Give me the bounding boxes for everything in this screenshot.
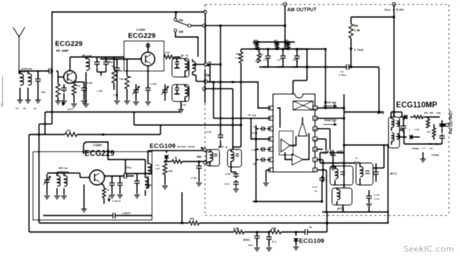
- capacitor C4 0.02 at pin3: [260, 128, 262, 130]
- detector diode D1: [404, 114, 407, 119]
- wire ground return under IC: [253, 201, 324, 203]
- osc cap inside: [175, 87, 180, 89]
- detector filter cap C: [403, 124, 405, 126]
- svg-text:ECG229: ECG229: [55, 39, 83, 48]
- wire detector node: [423, 116, 440, 118]
- capacitor C10: [235, 180, 237, 182]
- wire y=112 ground bus: [45, 111, 180, 113]
- trimmer capacitor across antenna coil: [37, 75, 39, 79]
- wire box2 drop: [181, 192, 183, 223]
- wire 300 rail right: [77, 134, 161, 136]
- resistor R6 vertical: [426, 119, 430, 128]
- switch arm contact: [188, 24, 191, 27]
- svg-text:1k: 1k: [107, 188, 111, 192]
- wire IFT3 top to detector: [391, 111, 402, 113]
- wire Q1 collector up: [69, 57, 71, 71]
- ground padding cap: [114, 100, 120, 102]
- variable capacitor AM tuning: [46, 177, 48, 180]
- wire pin12 right: [317, 128, 330, 130]
- wire IFT4 secondary top: [233, 146, 241, 148]
- wire base into Q2: [100, 58, 141, 60]
- wire pin2 to FM net: [214, 117, 252, 119]
- terminal L circle: [203, 161, 206, 164]
- ground 0.1 cap: [266, 247, 272, 249]
- capacitor 0.1: [268, 231, 271, 234]
- AM contact: [174, 29, 177, 32]
- IFT4 secondary coil: [231, 152, 234, 162]
- base capacitor cluster: [63, 86, 65, 88]
- wire supply rail y223 right: [199, 222, 389, 224]
- detector diode D2: [410, 134, 413, 139]
- ground 10k: [124, 100, 130, 102]
- wire pin11 right: [317, 138, 326, 140]
- svg-text:300: 300: [190, 217, 195, 221]
- svg-text:0.04: 0.04: [181, 103, 187, 107]
- svg-text:30p: 30p: [108, 60, 113, 64]
- arrow 1mA: [62, 100, 64, 106]
- wire arm to terminal: [191, 25, 203, 27]
- svg-text:RF coil: RF coil: [82, 54, 92, 58]
- svg-text:0.5mA: 0.5mA: [112, 199, 122, 203]
- RF coil: [86, 59, 89, 71]
- FM contact: [174, 18, 177, 21]
- capacitor C2 0.02: [282, 52, 284, 56]
- resistor Rb 1.5k: [350, 17, 352, 24]
- svg-text:10k: 10k: [271, 227, 277, 231]
- wire cluster top: [125, 173, 152, 175]
- wire secondary to M: [193, 63, 204, 65]
- capacitor C5 at pin6: [260, 159, 262, 161]
- IC pin 5 left: [269, 147, 273, 151]
- svg-text:0.005: 0.005: [86, 81, 93, 85]
- ground RF coil: [83, 103, 89, 105]
- resistor 10k vertical: [163, 164, 167, 175]
- svg-text:2k: 2k: [174, 156, 178, 160]
- svg-text:ECG229: ECG229: [85, 149, 116, 158]
- capacitor cluster 1: [111, 180, 113, 183]
- IC amp triangle 3: [292, 154, 303, 165]
- tuning capacitor RF 1: [96, 59, 98, 62]
- wire antenna to Q3 base: [64, 172, 80, 174]
- M terminal circle: [204, 63, 207, 66]
- wire jog up to AGC wire: [160, 125, 162, 135]
- wire AM output down: [284, 6, 286, 49]
- resistor 10k AGC: [270, 230, 281, 234]
- feedback capacitor: [147, 43, 149, 45]
- ground trimmer: [35, 99, 41, 101]
- left cluster: padding cap: [116, 65, 118, 68]
- wire FM net drop: [213, 82, 215, 118]
- middle can: [356, 163, 373, 185]
- svg-text:AM OUTPUT: AM OUTPUT: [287, 8, 317, 14]
- resistor R7: [432, 128, 436, 137]
- ground antenna coil secondary: [25, 99, 31, 101]
- wire pin13 right: [317, 117, 344, 119]
- svg-text:IFT2: IFT2: [390, 172, 397, 176]
- IFT4 primary cap: [214, 153, 218, 155]
- wire caps loop bottom: [293, 80, 307, 82]
- ground bias resistor: [55, 100, 61, 102]
- dashed enclosure left: [204, 5, 206, 216]
- wire AGC rail y232: [29, 231, 234, 233]
- svg-text:0.1: 0.1: [272, 240, 277, 244]
- wire pin8 drop: [317, 169, 327, 171]
- resistor 1.7k collector load: [112, 70, 116, 83]
- wire drop to IC top: [292, 81, 294, 95]
- emitter bypass capacitor 0.005: [83, 85, 85, 88]
- svg-text:6mA typ: 6mA typ: [324, 101, 337, 105]
- IFT5 lower coil: [337, 190, 340, 200]
- wire pin7 down: [266, 169, 271, 171]
- IC pin 1 left: [269, 106, 273, 110]
- electrolytic cap AGC: [256, 231, 259, 234]
- ground pin caps bus: [256, 125, 259, 202]
- wire bar antenna top: [47, 172, 64, 174]
- svg-text:ECG109: ECG109: [150, 143, 176, 150]
- wire detector out: [440, 124, 446, 126]
- terminal circle box1 top right: [204, 10, 207, 13]
- wire bottom of caps: [259, 66, 307, 68]
- capacitor 0.02 at pin5: [260, 148, 262, 150]
- svg-text:Rb: Rb: [354, 24, 358, 28]
- FM output terminal: [445, 123, 448, 126]
- antenna coil L1 primary: [20, 74, 23, 86]
- wire collector rail: [70, 56, 124, 58]
- wire L to IFT4: [207, 161, 210, 163]
- IFT1 secondary coil: [193, 62, 196, 72]
- svg-text:AM: AM: [197, 155, 202, 159]
- svg-text:30p: 30p: [41, 90, 46, 94]
- IFT5 coil a: [335, 169, 338, 179]
- svg-text:C8: C8: [429, 147, 433, 151]
- wire caps rail to Ca: [307, 66, 346, 68]
- wire M to AM branch: [208, 63, 221, 65]
- IFT3 transformer can: [389, 117, 400, 148]
- svg-text:1mA: 1mA: [67, 107, 74, 111]
- oscillator coil can: [172, 85, 189, 102]
- capacitor cluster 2: [119, 180, 121, 183]
- feedback corner wire: [84, 142, 146, 174]
- vertical collector line right of IC: [343, 94, 345, 188]
- IFT5 cap a: [340, 171, 345, 173]
- wire ECG109 rail: [148, 150, 203, 152]
- emitter capacitor 0.035: [147, 85, 149, 88]
- bias resistor at RF base: [57, 77, 59, 84]
- svg-text:0.7mA: 0.7mA: [354, 48, 364, 52]
- capacitor C12 0.01: [368, 193, 370, 196]
- ground C10: [233, 188, 239, 190]
- svg-text:1000p: 1000p: [431, 153, 440, 157]
- svg-text:2V typ: 2V typ: [248, 113, 257, 117]
- IFT1 capacitor inside: [175, 61, 180, 63]
- IFT1 transformer can: [172, 59, 189, 78]
- wire vertical branch from AM line: [220, 26, 222, 133]
- terminal circle mid boundary: [202, 87, 205, 90]
- wire IFT3 bottom tap: [399, 129, 404, 131]
- svg-text:C3: C3: [292, 58, 296, 62]
- IC pin 12 right: [313, 127, 317, 131]
- svg-text:FM OUTPUT: FM OUTPUT: [449, 110, 454, 134]
- AM bar antenna coil 2: [64, 176, 67, 187]
- IFT4 secondary cap: [236, 153, 240, 155]
- wire IFT2 box top: [344, 144, 388, 146]
- svg-text:C1: C1: [263, 58, 267, 62]
- osc coil inside: [185, 87, 188, 97]
- IFT3 secondary coil 1: [397, 121, 399, 126]
- ground AM tuning: [44, 195, 50, 197]
- resistor 1k emitter Q3: [102, 188, 106, 198]
- wire corner down to IFT3 feed: [378, 67, 380, 112]
- osc coil lower: [145, 178, 148, 189]
- svg-text:0.0047: 0.0047: [122, 211, 131, 215]
- ground cluster: [109, 194, 115, 196]
- IC pin 14 right: [313, 106, 317, 110]
- svg-text:50k: 50k: [253, 42, 258, 46]
- ground osc coil: [145, 184, 151, 186]
- ground C8: [330, 166, 336, 168]
- left edge wire: [2, 76, 4, 106]
- IFT4 secondary can: [228, 150, 242, 168]
- svg-text:1u: 1u: [314, 189, 318, 193]
- resistor 100 collector: [164, 55, 174, 59]
- ground emitter cap: [145, 101, 151, 103]
- terminal M circle: [203, 148, 206, 151]
- feedback loop box around converter: [124, 41, 164, 71]
- IC amp triangle 1: [281, 139, 290, 152]
- transistor Q3 AM converter: [90, 170, 105, 185]
- wire AGC bus vertical left: [38, 124, 40, 223]
- svg-text:0.02: 0.02: [252, 131, 258, 135]
- IFT5 upper can: [330, 166, 353, 185]
- junction dots bottom: [240, 124, 243, 127]
- wire IFT2 box right: [387, 145, 389, 223]
- IC pin 8 right: [313, 168, 317, 172]
- wire terminal to AM line: [206, 25, 285, 27]
- capacitor 0.02 above IFT4: [220, 133, 222, 135]
- IFT3 coil 2: [392, 133, 395, 141]
- capacitor Ca 0.05u series: [346, 66, 348, 68]
- svg-text:0.05u: 0.05u: [339, 73, 347, 77]
- IFT1 coil inside: [185, 61, 188, 71]
- IC ECG110MP package body: [273, 94, 315, 172]
- capacitor C14 1u: [321, 176, 323, 178]
- resistor VR1 50k: [255, 42, 259, 49]
- wire Vcc into IFT3: [393, 112, 395, 117]
- IC internal wires: [277, 108, 309, 160]
- IFT5 lower can: [332, 188, 352, 205]
- IFT5 can bottom drop: [342, 205, 344, 212]
- svg-text:150p: 150p: [125, 166, 132, 170]
- ground inside box: [81, 208, 87, 210]
- ground emitter resistor: [71, 103, 77, 105]
- wire 300 rail: [29, 134, 65, 136]
- resistor 300: [65, 132, 77, 136]
- dashed enclosure bottom: [205, 215, 449, 217]
- wire mid rail: [373, 167, 384, 169]
- ground detector: [420, 158, 426, 160]
- svg-text:2p: 2p: [309, 225, 313, 229]
- pot VR1 wiper: [257, 53, 261, 63]
- svg-text:555: 555: [15, 108, 20, 111]
- svg-text:AGC: AGC: [243, 238, 251, 242]
- wire mid rail y49: [249, 48, 308, 50]
- svg-text:1p: 1p: [111, 64, 114, 68]
- wire secondary bottom to FM terminal: [193, 74, 197, 76]
- IC pin 13 right: [313, 116, 317, 120]
- svg-text:0.02: 0.02: [191, 176, 197, 180]
- svg-text:ECG109: ECG109: [299, 238, 325, 245]
- IFT3 secondary coil 2: [397, 134, 399, 139]
- IFT4 primary can: [207, 150, 220, 167]
- ground antenna coil primary: [17, 99, 23, 101]
- resistor 300 bottom: [189, 221, 199, 225]
- svg-text:C7: C7: [422, 147, 426, 151]
- svg-text:IF T1: IF T1: [181, 54, 189, 58]
- wire AGC vertical left outer: [28, 135, 30, 233]
- resistor 3.3k: [234, 230, 244, 234]
- middle coil: [360, 167, 363, 177]
- svg-text:C12: C12: [374, 197, 380, 201]
- capacitor 150p series: [123, 175, 125, 177]
- capacitor under IFT4 0.05: [230, 167, 232, 172]
- svg-text:(power lead): (power lead): [177, 145, 195, 149]
- coupling capacitor to RF amp base: [47, 70, 49, 72]
- wire supply rail y223: [39, 222, 189, 224]
- emitter resistor 750: [73, 82, 75, 85]
- svg-text:SeekIC.com: SeekIC.com: [403, 244, 454, 254]
- ground AGC cap: [254, 247, 260, 249]
- diode zener: [166, 151, 168, 153]
- wire drop to pin14 net: [325, 49, 327, 108]
- FM terminal circle: [204, 80, 207, 83]
- variable capacitor oscillator: [164, 87, 166, 90]
- wire AM contact down-right: [175, 32, 198, 57]
- svg-text:10k: 10k: [274, 42, 279, 46]
- wire pole to FM contact: [175, 12, 178, 18]
- wire cap to base: [56, 70, 58, 72]
- wire det bottom rail: [404, 143, 442, 145]
- svg-text:amc: amc: [248, 243, 254, 247]
- terminal circle on boundary: [203, 24, 206, 27]
- ground bypass cap: [81, 100, 87, 102]
- wire riser to supply rail: [326, 212, 328, 232]
- svg-text:R7: R7: [427, 130, 431, 134]
- IFT4 primary coil: [210, 152, 213, 162]
- svg-text:Vcc: Vcc: [384, 7, 392, 12]
- transistor Q1 RF amplifier: [64, 71, 77, 84]
- dashed enclosure right: [448, 5, 450, 216]
- svg-text:ECG110MP: ECG110MP: [396, 101, 437, 110]
- wire bus drop: [44, 112, 46, 135]
- resistor R2 680: [286, 42, 290, 49]
- svg-text:1k: 1k: [129, 75, 132, 79]
- capacitor C8 0.01 right of IC: [332, 150, 334, 153]
- svg-text:1mA typ: 1mA typ: [324, 119, 337, 123]
- wire caps to ground bus: [97, 71, 106, 73]
- capacitor cluster 3: [136, 178, 138, 181]
- ground bar antenna: [54, 195, 60, 197]
- wire vertical from M terminal down: [209, 66, 211, 83]
- svg-text:IFT 4: IFT 4: [218, 144, 228, 149]
- IC pin 3 left: [269, 127, 273, 131]
- variable capacitor FM tuning: [135, 87, 137, 90]
- capacitor 2p series: [304, 231, 306, 233]
- svg-text:C10: C10: [224, 182, 230, 186]
- svg-text:750: 750: [76, 84, 81, 88]
- wire AGC to tuner: [133, 112, 135, 125]
- IC internal bias box: [279, 131, 293, 155]
- IC amp triangle 2: [298, 122, 307, 136]
- svg-text:R5, R6: R5, R6: [424, 111, 434, 115]
- IC pin 7 left: [269, 168, 273, 172]
- wire top resistor rail: [253, 41, 295, 43]
- IC pin 6 left: [269, 158, 273, 162]
- wire osc can top to collector rail: [179, 57, 181, 59]
- wire into IFT4: [220, 140, 222, 147]
- transistor Q2 FM converter: [141, 52, 155, 66]
- IC pin 10 right: [313, 147, 317, 151]
- ground cap ECG109: [196, 182, 202, 184]
- wire pin9 right: [317, 159, 323, 161]
- wire pin2 routing: [251, 118, 271, 139]
- IFT3 coil 1: [392, 119, 395, 127]
- capacitor C13: [329, 152, 331, 154]
- svg-text:100: 100: [165, 51, 170, 55]
- wire Q2 top to IFT1: [147, 45, 149, 53]
- svg-text:0.04: 0.04: [113, 93, 119, 97]
- svg-text:300: 300: [66, 129, 71, 133]
- capacitor C3 0.01: [296, 52, 298, 56]
- IC pin 4 left: [269, 137, 273, 141]
- resistor R1 10k: [275, 42, 279, 49]
- capacitor right of cans: [375, 169, 377, 172]
- wire AGC right: [281, 231, 305, 233]
- C12 drop: [368, 207, 370, 212]
- svg-text:AM: AM: [179, 30, 184, 34]
- wire AGC to riser: [308, 231, 328, 233]
- wire pin1 routing: [207, 82, 271, 108]
- wire box bottom stub: [39, 123, 52, 125]
- IC mixer block: [293, 101, 313, 110]
- osc coil ECG109: [148, 164, 151, 175]
- capacitor Cb: [441, 134, 443, 136]
- svg-text:680: 680: [285, 42, 290, 46]
- AM output terminal: [283, 2, 287, 6]
- wire ECG109 left drop: [147, 151, 149, 164]
- wire Vcc down: [393, 6, 395, 117]
- ground diode: [293, 246, 299, 248]
- wire Rb bottom to rail: [350, 54, 352, 67]
- capacitor C7: [441, 122, 443, 124]
- dashed enclosure IC module top: [205, 4, 449, 6]
- arrow 0.7mA: [350, 38, 352, 54]
- diode ECG109: [295, 231, 298, 234]
- capacitor C1 10u: [267, 52, 269, 56]
- IC pin 2 left: [269, 116, 273, 120]
- wire pin14 right: [317, 107, 344, 109]
- FM tuner enclosure box: [52, 12, 204, 124]
- middle cap: [365, 170, 370, 172]
- wire Vcc branch to Rb: [351, 16, 394, 18]
- ground base cap: [61, 100, 67, 102]
- svg-text:C2: C2: [277, 58, 281, 62]
- svg-text:0.05: 0.05: [225, 172, 231, 176]
- wire vertical 232: [232, 89, 234, 150]
- IC pin 11 right: [313, 137, 317, 141]
- wire antenna to coupling cap: [19, 70, 48, 72]
- resistor 2k: [172, 160, 182, 164]
- svg-text:5M: 5M: [33, 108, 36, 111]
